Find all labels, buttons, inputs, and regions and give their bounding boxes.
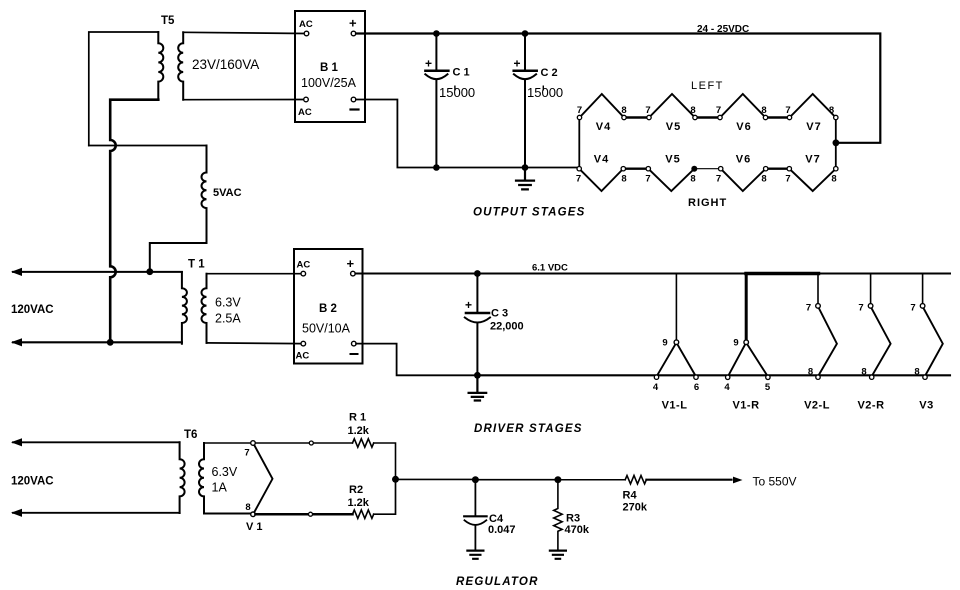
V1 pin 8 terminal — [251, 512, 256, 517]
svg-text:7: 7 — [576, 174, 581, 185]
rectifier B1 box — [295, 11, 365, 122]
svg-text:8: 8 — [808, 367, 813, 378]
arrowhead left bottom regulator — [11, 509, 22, 517]
resistor R4 — [625, 476, 646, 484]
heater V7 left top — [790, 94, 836, 118]
wire R3 node to R4 — [558, 479, 625, 481]
svg-text:470k: 470k — [565, 524, 590, 536]
ground symbol below C3 — [469, 375, 487, 400]
svg-text:R3: R3 — [566, 513, 580, 525]
transformer T5 secondary winding — [178, 32, 183, 99]
svg-text:V4: V4 — [596, 121, 611, 133]
wire 5VAC return to junction — [150, 243, 207, 272]
svg-text:8: 8 — [690, 105, 695, 116]
V1 pin 7 terminal — [251, 441, 256, 446]
heater V4 left top — [580, 94, 625, 118]
svg-text:120VAC: 120VAC — [11, 476, 54, 488]
svg-text:+: + — [514, 57, 521, 71]
svg-text:V6: V6 — [736, 154, 751, 166]
svg-text:5VAC: 5VAC — [213, 187, 242, 199]
capacitor C1 — [435, 34, 437, 70]
V2-L pin terminals — [816, 304, 821, 309]
wire link — [624, 116, 649, 118]
svg-text:270k: 270k — [623, 502, 648, 514]
svg-text:1.2k: 1.2k — [348, 425, 370, 437]
heater V1-L — [675, 274, 677, 340]
transformer T1 primary winding — [182, 272, 187, 344]
resistor R1 — [353, 439, 374, 447]
wire T5 secondary top to B1 AC — [183, 32, 304, 33]
svg-text:T5: T5 — [161, 15, 175, 27]
svg-text:15000: 15000 — [527, 85, 563, 100]
wire 120VAC top line regulator — [13, 441, 180, 443]
B1 pin AC bottom — [304, 97, 309, 102]
wire B1 minus to ground rail — [356, 100, 436, 168]
svg-text:+: + — [349, 16, 357, 31]
V1-L pins 4 6 terminals — [654, 375, 658, 379]
svg-text:8: 8 — [829, 105, 834, 116]
svg-text:V2-L: V2-L — [804, 400, 830, 412]
wire T6 secondary bottom to V1 — [204, 513, 251, 515]
wire link — [623, 167, 648, 169]
wire B2 minus to driver ground rail — [356, 344, 477, 376]
tube labels top row V4 V5 V6 V7 — [596, 121, 822, 133]
wire 24-25VDC positive rail — [356, 34, 880, 143]
B2 pin minus bottom — [352, 341, 357, 346]
svg-text:V6: V6 — [736, 121, 751, 133]
heater V6 right bottom — [721, 169, 766, 191]
heater V4 right bottom — [579, 169, 623, 191]
capacitor C3 — [476, 274, 478, 312]
node T5 return junction — [107, 339, 114, 346]
svg-text:100V/25A: 100V/25A — [301, 76, 357, 90]
svg-text:RIGHT: RIGHT — [688, 197, 727, 209]
wire T5 secondary bottom to B1 AC — [183, 99, 304, 101]
svg-text:7: 7 — [716, 105, 721, 116]
svg-text:V1-R: V1-R — [732, 400, 759, 412]
svg-text:B 1: B 1 — [320, 62, 339, 74]
wire link — [766, 116, 790, 118]
B1 pin AC top — [304, 31, 309, 36]
svg-text:0.047: 0.047 — [488, 524, 516, 536]
transformer T5 primary winding — [158, 32, 163, 100]
heater V3 — [922, 274, 924, 304]
svg-text:4: 4 — [653, 382, 659, 393]
svg-text:7: 7 — [785, 105, 790, 116]
svg-text:6.1 VDC: 6.1 VDC — [532, 263, 568, 274]
svg-text:7: 7 — [910, 303, 915, 314]
terminal circle on bottom wire — [309, 512, 313, 516]
wire 6.1VDC rail — [355, 273, 950, 275]
svg-text:R4: R4 — [623, 490, 638, 502]
svg-text:To 550V: To 550V — [753, 475, 797, 489]
capacitor C4 — [474, 480, 476, 515]
svg-text:V2-R: V2-R — [857, 400, 884, 412]
svg-text:22,000: 22,000 — [490, 321, 524, 333]
resistor R2 — [353, 510, 374, 518]
resistor R3 — [554, 480, 562, 550]
terminals bottom row — [577, 167, 838, 171]
svg-text:24 - 25VDC: 24 - 25VDC — [697, 24, 749, 35]
svg-text:15000: 15000 — [439, 85, 475, 100]
svg-text:4: 4 — [724, 382, 730, 393]
wire left vertical joining rows — [578, 118, 580, 169]
wire link — [766, 167, 790, 169]
svg-text:8: 8 — [690, 174, 695, 185]
pin labels bottom row — [576, 174, 837, 185]
B1 pin minus bottom — [351, 97, 356, 102]
ground symbol below C2 — [516, 168, 534, 190]
wire T6 secondary top to V1 — [204, 442, 251, 444]
svg-text:8: 8 — [761, 105, 766, 116]
wire node to C4 to R3 — [396, 478, 558, 480]
svg-text:23V/160VA: 23V/160VA — [192, 57, 259, 72]
svg-text:1.2k: 1.2k — [348, 497, 370, 509]
svg-text:B 2: B 2 — [319, 303, 337, 315]
svg-text:V7: V7 — [805, 154, 820, 166]
terminal circle on top wire — [309, 441, 313, 445]
B2 pin AC bottom — [301, 341, 306, 346]
tube V1 heater regulator — [254, 445, 272, 512]
node C3 bottom — [474, 372, 481, 379]
svg-text:V4: V4 — [594, 154, 609, 166]
svg-text:8: 8 — [831, 174, 836, 185]
inductor 5VAC winding — [202, 146, 207, 244]
transformer T6 secondary winding — [199, 443, 204, 514]
node C1 top — [433, 30, 440, 37]
B1 pin + top — [351, 31, 356, 36]
svg-text:8: 8 — [761, 174, 766, 185]
svg-text:AC: AC — [296, 351, 310, 362]
wire thick rail segment — [746, 272, 819, 275]
heater V2-R — [870, 274, 872, 304]
heater V1-R — [745, 274, 748, 340]
svg-text:C 3: C 3 — [491, 308, 508, 320]
svg-text:6.3V: 6.3V — [212, 465, 238, 479]
svg-text:1A: 1A — [212, 481, 228, 495]
wire R2 to node — [374, 479, 396, 514]
svg-text:V5: V5 — [665, 154, 680, 166]
svg-text:9: 9 — [733, 338, 738, 349]
ground symbol below C4 — [467, 551, 483, 559]
svg-text:V5: V5 — [666, 121, 681, 133]
rectifier B2 box — [294, 249, 363, 364]
V1-R pin 9 terminal — [744, 340, 749, 345]
wire right vertical to node — [835, 118, 837, 170]
wire 120VAC bottom line regulator — [13, 512, 180, 514]
heater V5 right bottom — [648, 169, 694, 191]
svg-text:V 1: V 1 — [246, 521, 263, 533]
wire 120VAC top line — [13, 271, 182, 273]
node C2 top — [522, 30, 529, 37]
svg-text:REGULATOR: REGULATOR — [456, 576, 539, 588]
node C1 bottom — [433, 164, 440, 171]
wire V1 pin7 to R1 — [255, 442, 352, 444]
svg-text:+: + — [347, 256, 355, 271]
arrowhead To 550V — [733, 477, 743, 484]
svg-text:7: 7 — [785, 174, 790, 185]
svg-text:AC: AC — [299, 19, 313, 30]
wire T5 primary bottom heavy vertical with hops — [110, 100, 158, 343]
svg-text:AC: AC — [297, 260, 311, 271]
svg-text:R 1: R 1 — [349, 412, 366, 424]
wire left horizontal to 5VAC winding — [89, 145, 207, 147]
B2 pin AC top — [301, 271, 306, 276]
svg-text:7: 7 — [645, 105, 650, 116]
svg-text:7: 7 — [806, 303, 811, 314]
capacitor C2 — [524, 34, 526, 70]
wire V1 pin8 to R2 — [255, 513, 352, 516]
arrowhead left top — [11, 268, 22, 276]
heater V5 left top — [649, 94, 695, 118]
svg-text:T6: T6 — [184, 429, 197, 441]
wire driver ground rail — [477, 374, 950, 376]
wire link thin — [694, 168, 720, 170]
wire R4 to output arrow — [646, 479, 731, 481]
V3 pin terminals — [920, 304, 925, 309]
V1-L pin 9 terminal — [674, 340, 679, 345]
svg-text:6.3V: 6.3V — [215, 296, 241, 310]
ground symbol below R3 — [550, 551, 566, 559]
wire ground rail to heater string — [436, 167, 577, 169]
svg-text:V1-L: V1-L — [662, 400, 688, 412]
svg-text:7: 7 — [858, 303, 863, 314]
node C3 top — [474, 270, 481, 277]
svg-text:50V/10A: 50V/10A — [302, 322, 351, 336]
arrowhead left bottom — [11, 338, 22, 346]
svg-text:AC: AC — [298, 107, 312, 118]
pin labels top row — [577, 105, 834, 116]
node 5VAC junction — [146, 268, 153, 275]
wire T5 primary top to left vertical — [89, 32, 159, 146]
node R1 R2 join — [392, 476, 399, 483]
wire 120VAC bottom line — [13, 341, 182, 343]
node C2 bottom — [522, 164, 529, 171]
svg-text:6: 6 — [694, 382, 699, 393]
svg-text:T 1: T 1 — [188, 259, 205, 271]
wire T1 secondary bottom to B2 — [207, 342, 302, 345]
svg-text:7: 7 — [645, 174, 650, 185]
transformer T1 secondary winding — [202, 274, 207, 343]
svg-text:C 1: C 1 — [453, 67, 470, 79]
svg-text:OUTPUT STAGES: OUTPUT STAGES — [473, 207, 586, 219]
heater V7 right bottom — [789, 169, 836, 191]
svg-text:8: 8 — [861, 367, 866, 378]
svg-text:V3: V3 — [919, 400, 933, 412]
transformer T6 primary winding — [180, 442, 185, 513]
svg-text:+: + — [425, 57, 432, 71]
wire T1 secondary top to B2 — [207, 273, 302, 275]
svg-text:8: 8 — [245, 502, 250, 513]
arrowhead left top regulator — [11, 438, 22, 446]
heater V2-L — [817, 274, 819, 304]
svg-text:7: 7 — [244, 448, 249, 459]
V1-R pins 4 5 terminals — [726, 375, 730, 379]
svg-text:5: 5 — [765, 382, 771, 393]
svg-text:8: 8 — [914, 367, 919, 378]
terminals top row — [577, 115, 838, 119]
V2-R pin terminals — [868, 304, 873, 309]
svg-text:7: 7 — [716, 174, 721, 185]
svg-text:120VAC: 120VAC — [11, 304, 54, 316]
svg-text:C 2: C 2 — [541, 67, 558, 79]
heater V6 left top — [720, 94, 766, 118]
svg-text:2.5A: 2.5A — [215, 312, 241, 326]
svg-text:LEFT: LEFT — [691, 80, 724, 92]
node output join — [833, 139, 840, 146]
svg-text:9: 9 — [662, 338, 667, 349]
svg-text:8: 8 — [621, 105, 626, 116]
wire link — [695, 116, 720, 118]
tube labels bottom row V4 V5 V6 V7 — [594, 154, 821, 166]
svg-text:DRIVER STAGES: DRIVER STAGES — [474, 423, 583, 435]
node C4 top — [472, 476, 479, 483]
node R3 top — [554, 476, 561, 483]
svg-text:R2: R2 — [349, 484, 363, 496]
B2 pin + top — [351, 271, 356, 276]
svg-text:8: 8 — [621, 174, 626, 185]
node V5 pin8 bottom — [691, 166, 697, 172]
wire R1 to node — [374, 443, 396, 479]
svg-text:V7: V7 — [806, 121, 821, 133]
svg-text:+: + — [465, 298, 472, 312]
svg-text:7: 7 — [577, 105, 582, 116]
